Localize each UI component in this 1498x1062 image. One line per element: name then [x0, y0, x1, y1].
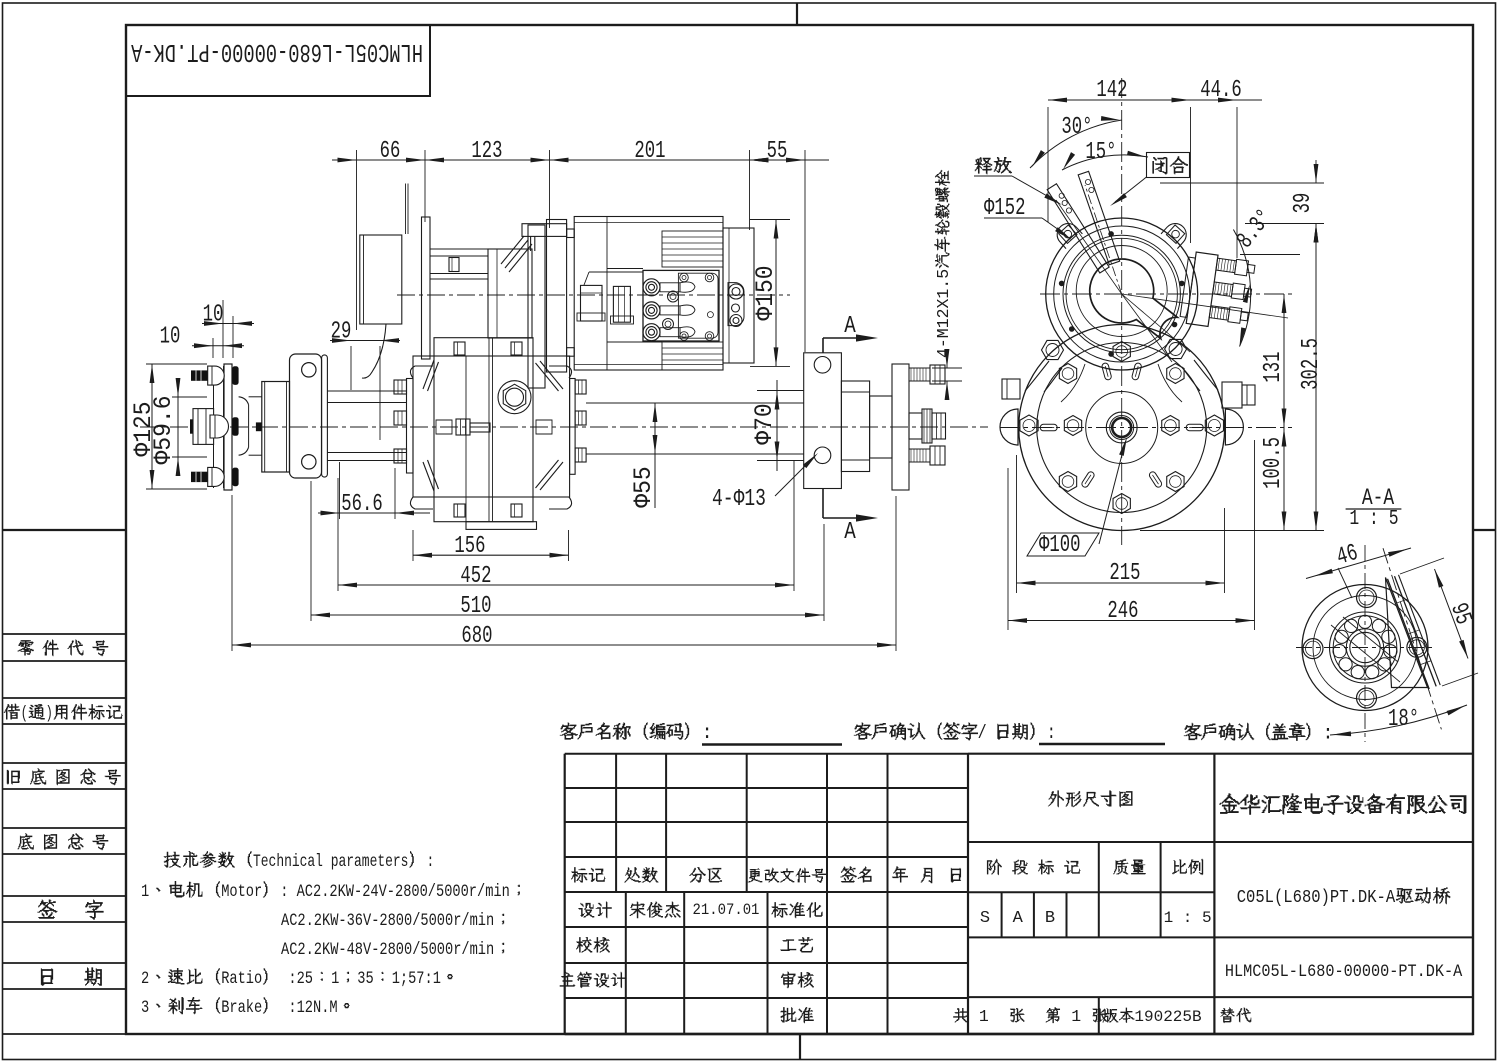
svg-text:55: 55 [767, 139, 788, 165]
svg-text:66: 66 [380, 139, 401, 165]
svg-text:29: 29 [331, 319, 352, 345]
svg-text:123: 123 [471, 139, 502, 165]
svg-text::: : [427, 851, 435, 872]
svg-text:56.6: 56.6 [341, 492, 382, 518]
svg-text:1: 1 [1061, 1007, 1091, 1026]
svg-text:10: 10 [160, 324, 181, 350]
svg-text:HLMC05L-L680-00000-PT.DK-A: HLMC05L-L680-00000-PT.DK-A [1225, 961, 1463, 981]
svg-text:Technical parameters: Technical parameters [253, 851, 408, 872]
svg-text:AC2.2KW-36V-2800/5000r/min: AC2.2KW-36V-2800/5000r/min [281, 910, 494, 930]
svg-text::: : [701, 722, 711, 744]
svg-text:Brake: Brake [221, 997, 262, 1017]
svg-text:18°: 18° [1388, 707, 1419, 733]
svg-text:215: 215 [1109, 561, 1140, 587]
svg-text:Ratio: Ratio [221, 968, 262, 988]
svg-text:AC2.2KW-48V-2800/5000r/min: AC2.2KW-48V-2800/5000r/min [281, 939, 494, 959]
svg-text:142: 142 [1096, 78, 1127, 104]
svg-text:A: A [1013, 909, 1024, 928]
svg-text:190225B: 190225B [1134, 1008, 1201, 1026]
svg-text:39: 39 [1291, 193, 1317, 214]
svg-text:: AC2.2KW-24V-2800/5000r/min: : AC2.2KW-24V-2800/5000r/min [280, 881, 510, 901]
svg-text:44.6: 44.6 [1200, 78, 1241, 104]
svg-text:A: A [844, 518, 856, 546]
svg-text:1 : 5: 1 : 5 [1164, 909, 1212, 927]
svg-text:246: 246 [1107, 599, 1138, 625]
svg-text:680: 680 [461, 624, 492, 650]
svg-text:): ) [46, 703, 53, 724]
svg-text::25: :25 [280, 968, 313, 988]
svg-text:15°: 15° [1085, 140, 1116, 166]
svg-text:1: 1 [141, 881, 149, 901]
svg-text:Φ59.6: Φ59.6 [150, 395, 178, 464]
svg-text:510: 510 [460, 594, 491, 620]
svg-text:1 : 5: 1 : 5 [1349, 506, 1398, 531]
svg-text:1: 1 [969, 1007, 1009, 1026]
svg-text::: : [1322, 723, 1332, 745]
svg-text:1: 1 [331, 968, 339, 988]
svg-text:B: B [1045, 909, 1055, 928]
svg-text:HLMC05L-L680-00000-PT.DK-A: HLMC05L-L680-00000-PT.DK-A [131, 37, 423, 67]
svg-text:Motor: Motor [221, 881, 262, 901]
svg-text:2: 2 [141, 968, 149, 988]
svg-text:131: 131 [1261, 351, 1287, 382]
svg-text:21.07.01: 21.07.01 [693, 902, 760, 919]
svg-text:3: 3 [141, 997, 149, 1017]
svg-text:Φ55: Φ55 [630, 466, 658, 507]
svg-text:10: 10 [203, 302, 224, 328]
svg-text:Φ70: Φ70 [751, 403, 779, 444]
svg-text::12N.M: :12N.M [280, 997, 337, 1017]
svg-text:/: / [978, 724, 994, 745]
svg-text:4-Φ13: 4-Φ13 [712, 486, 766, 513]
svg-text:A: A [844, 312, 856, 340]
svg-text:100.5: 100.5 [1261, 437, 1287, 489]
svg-text::: : [1047, 724, 1055, 745]
svg-text:30°: 30° [1061, 115, 1092, 141]
svg-text:S: S [980, 909, 990, 928]
svg-text:452: 452 [460, 564, 491, 590]
svg-text:Φ100: Φ100 [1039, 533, 1080, 559]
svg-text:C05L(L680)PT.DK-A: C05L(L680)PT.DK-A [1237, 888, 1396, 909]
svg-text:35: 35 [357, 968, 373, 988]
svg-text:302.5: 302.5 [1299, 338, 1325, 390]
svg-text:4-M12X1.5: 4-M12X1.5 [934, 269, 953, 358]
svg-text:Φ150: Φ150 [752, 265, 780, 320]
svg-text:1;57:1: 1;57:1 [392, 968, 441, 988]
svg-text:201: 201 [634, 139, 665, 165]
svg-text:(: ( [21, 703, 28, 724]
svg-text:156: 156 [454, 534, 485, 560]
